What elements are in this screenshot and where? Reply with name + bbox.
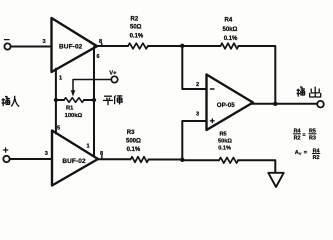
pin 8 label U1 [99, 39, 102, 46]
svg-text:500Ω: 500Ω [126, 138, 141, 144]
output terminal [317, 101, 324, 108]
svg-text:=: = [302, 133, 305, 139]
wire node B to op-amp pin 3 [182, 121, 206, 160]
buffer U1 BUF-02 [52, 18, 98, 72]
svg-text:100kΩ: 100kΩ [65, 113, 83, 119]
svg-text:0.1%: 0.1% [130, 33, 144, 39]
svg-text:3: 3 [42, 39, 45, 45]
buffer U2 BUF-02 [52, 131, 98, 186]
svg-text:=: = [304, 150, 307, 156]
R2 value label [130, 16, 144, 39]
svg-text:R4: R4 [225, 18, 233, 24]
svg-text:1: 1 [86, 144, 89, 150]
wire top input [11, 46, 52, 48]
balance label (ping heng) [103, 95, 123, 106]
svg-text:50kΩ: 50kΩ [223, 27, 238, 33]
op-amp U3 OP-05 [207, 75, 254, 131]
node B junction [180, 158, 184, 162]
svg-text:50Ω: 50Ω [130, 25, 142, 31]
wire node A to R4 [182, 45, 220, 47]
bottom input terminal plus [3, 148, 9, 162]
svg-text:V+: V+ [109, 70, 117, 76]
pin 1 lead U1 to pot [55, 69, 57, 134]
wire node B to R5 [182, 159, 219, 161]
wire R2 to node A [148, 45, 182, 47]
resistor R4 [221, 43, 239, 49]
resistor R2 [128, 43, 148, 49]
svg-text:50kΩ: 50kΩ [218, 138, 232, 144]
R5 value label [218, 131, 232, 151]
svg-text:R3: R3 [127, 130, 135, 136]
svg-text:6: 6 [96, 54, 99, 60]
resistor R5 [219, 158, 238, 164]
R3 value label [126, 130, 141, 153]
input label (shu ru) [2, 96, 19, 107]
potentiometer R1 [56, 98, 94, 103]
wire U3 output [252, 103, 318, 105]
svg-text:0.1%: 0.1% [224, 36, 238, 42]
svg-text:0.1%: 0.1% [218, 145, 231, 151]
wire R4 to output node [239, 46, 276, 104]
svg-text:R3: R3 [309, 136, 316, 142]
svg-text:R2: R2 [131, 16, 139, 22]
ground [268, 173, 283, 187]
resistor R3 [131, 157, 149, 163]
svg-text:V: V [299, 151, 302, 156]
output label (shu chu) [297, 87, 321, 98]
node A junction [180, 44, 184, 48]
svg-text:R2: R2 [294, 136, 301, 142]
wire R5 to ground [238, 160, 275, 172]
svg-text:5: 5 [57, 125, 60, 131]
junction pot left [54, 98, 58, 102]
R4 value label [223, 18, 239, 43]
svg-text:R1: R1 [66, 106, 74, 112]
V+ terminal [109, 70, 117, 82]
equation R4/R2 = R5/R3 [293, 129, 316, 142]
R1 value label [65, 106, 83, 119]
R1 wiper arrow [71, 80, 112, 97]
svg-text:OP-05: OP-05 [217, 102, 235, 109]
svg-text:0.1%: 0.1% [127, 147, 141, 153]
junction pot right [92, 98, 96, 102]
svg-text:R5: R5 [220, 131, 227, 137]
wire node A to op-amp pin 2 [182, 46, 206, 89]
wire U1 output to R2 [97, 45, 128, 47]
output node junction [273, 102, 277, 106]
pin 8 label U2 [100, 151, 103, 160]
equation Av = R4/R2 [295, 148, 320, 161]
pin 5/6 lead U1 down to U2 pin 1 [93, 47, 95, 156]
wire R3 to node B [149, 159, 183, 161]
svg-text:3: 3 [196, 112, 199, 118]
svg-text:R2: R2 [313, 155, 320, 161]
svg-text:1: 1 [59, 76, 62, 82]
svg-text:BUF-02: BUF-02 [62, 158, 86, 165]
wire U2 output to R3 [98, 158, 131, 160]
svg-text:BUF-02: BUF-02 [59, 43, 83, 50]
svg-text:3: 3 [45, 151, 48, 157]
wire bottom input [10, 158, 52, 160]
input terminal minus [4, 40, 10, 50]
svg-text:2: 2 [196, 82, 199, 88]
